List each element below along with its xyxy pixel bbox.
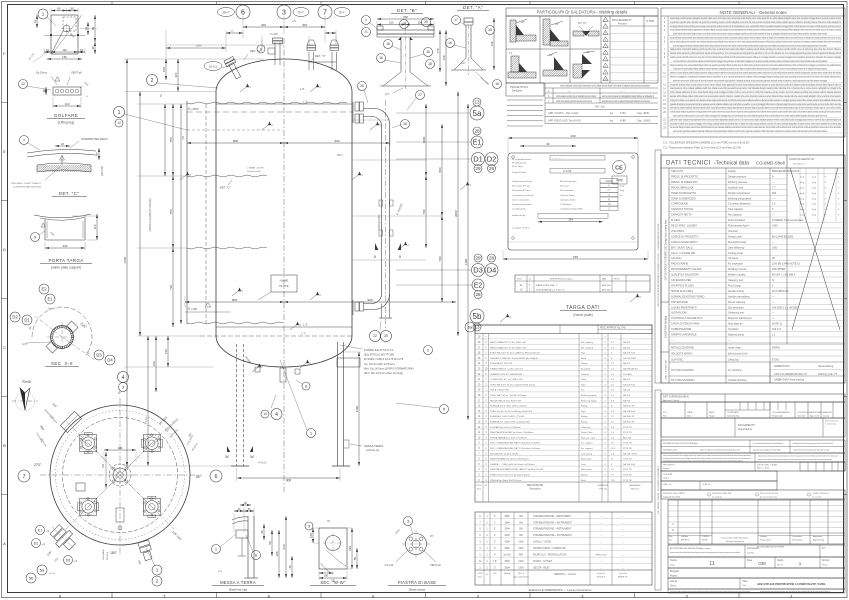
svg-text:Welding process: Welding process: [728, 268, 747, 271]
svg-text:earthing lug: earthing lug: [366, 449, 380, 452]
svg-text:ULTRASUONI: ULTRASUONI: [671, 312, 687, 315]
top balloons 6 3 7: [236, 5, 250, 19]
svg-text:Capacity torico: Capacity torico: [560, 194, 575, 197]
svg-text:16+7: 16+7: [222, 11, 229, 15]
svg-text:N° di Targa: N° di Targa: [512, 165, 524, 168]
svg-text:Working temperature: Working temperature: [728, 197, 752, 200]
svg-text:METALLIZZAZIONE: METALLIZZAZIONE: [671, 347, 694, 350]
svg-text:X: X: [374, 255, 377, 259]
svg-text:Targa di rilievo: Targa di rilievo: [512, 171, 527, 174]
svg-text:1040: 1040: [196, 45, 202, 48]
svg-text:PROGETTO: PROGETTO: [663, 465, 676, 467]
svg-text:RADIOGRAFIE: RADIOGRAFIE: [671, 263, 689, 266]
svg-text:QUALIFICA SALDATORI: QUALIFICA SALDATORI: [671, 274, 699, 277]
svg-text:AIR STEAM PREHEATER CONDENS: AIR STEAM PREHEATER CONDENSATE TANK: [757, 582, 826, 586]
svg-text:MESSA A TERRA: MESSA A TERRA: [220, 580, 256, 585]
svg-text:Inside drain: Inside drain: [728, 347, 742, 350]
svg-text:APPROV.: APPROV.: [681, 539, 690, 542]
svg-text:N5=?: N5=?: [337, 154, 343, 157]
svg-text:D2: D2: [12, 315, 18, 320]
svg-text:1: 1: [118, 110, 121, 116]
svg-text:Fase: Fase: [747, 560, 753, 562]
svg-text:DATI TECNICI: DATI TECNICI: [666, 160, 711, 167]
svg-text:R=1045 r=190,5 H=275 Rm=75: R=1045 r=190,5 H=275 Rm=75: [364, 357, 404, 361]
svg-text:1": 1": [494, 522, 496, 524]
project row: [668, 568, 845, 578]
CE mark: [613, 161, 626, 174]
svg-text:D3: D3: [66, 558, 71, 562]
svg-text:dimensioni la diametro materia: dimensioni la diametro materiale idrauli…: [670, 106, 841, 110]
svg-text:montaggio diametro tenuta acco: montaggio diametro tenuta according prov…: [670, 24, 841, 28]
svg-text:8: 8: [260, 47, 262, 51]
sec x-x pipe circle: [51, 326, 74, 349]
svg-text:P275 TR: P275 TR: [623, 475, 632, 477]
svg-text:TIPO E: TIPO E: [518, 573, 525, 575]
svg-text:230: 230: [348, 546, 352, 551]
svg-text:CICLO DI VERNICIATURA n°5: CICLO DI VERNICIATURA n°5: [774, 373, 807, 376]
svg-text:110: 110: [65, 102, 70, 106]
svg-text:P275 TR: P275 TR: [623, 432, 632, 434]
svg-text:Categoria-Gruppo PED: Categoria-Gruppo PED: [560, 208, 583, 211]
svg-text:12: 12: [117, 121, 121, 125]
bolt hole ring (dotted): [56, 411, 185, 540]
svg-text:Preparation: Preparation: [772, 415, 784, 418]
svg-text:REINF. PL.: REINF. PL.: [618, 577, 629, 579]
plan bottom balloons: [152, 565, 162, 575]
svg-text:Bottom: Bottom: [581, 474, 588, 477]
svg-text:Treat'y Index: Treat'y Index: [825, 423, 836, 426]
svg-text:TARGA DI TENUTA ARIA: TARGA DI TENUTA ARIA: [671, 323, 700, 326]
weld seam lines: [216, 103, 352, 105]
svg-text:Sch.40: Sch.40: [503, 555, 511, 557]
nozzle group N5/N7 (double stub bridge): [308, 52, 310, 70]
svg-text:-Technical data: -Technical data: [714, 161, 749, 167]
svg-text:CALC. / CLASSE ISP.: CALC. / CLASSE ISP.: [671, 252, 696, 255]
svg-text:Needle testing: Needle testing: [728, 290, 745, 293]
svg-text:900: 900: [367, 298, 372, 302]
standpipe bottom stub: [381, 304, 383, 319]
svg-text:SA 105: SA 105: [623, 362, 631, 365]
svg-text:Coordinato by: Coordinato by: [512, 208, 527, 211]
table: nozzle list (ELENCO E DIMENSIONI): [475, 512, 652, 585]
svg-text:± SEAM + NOTE: ± SEAM + NOTE: [247, 167, 264, 170]
svg-text:1.1: 1.1: [772, 334, 776, 337]
svg-text:SPESSORE Description: SPESSORE Description: [550, 278, 573, 281]
svg-text:730: 730: [169, 285, 173, 290]
svg-text:180°: 180°: [110, 551, 118, 555]
client/title row: [668, 578, 845, 589]
svg-text:Lifting lug: Lifting lug: [581, 426, 591, 429]
svg-text:Seal plate air: Seal plate air: [728, 323, 743, 326]
svg-text:Bend: Bend: [581, 358, 587, 360]
svg-text:D1: D1: [34, 541, 39, 545]
svg-text:P275 TR: P275 TR: [623, 469, 632, 471]
border tick marks and grid refs: [111, 593, 113, 599]
svg-text:50/50 SALD. LUNET.T./SALD.T: 50/50 SALD. LUNET.T./SALD.T: [11, 182, 42, 185]
svg-text:da x P.le: da x P.le: [619, 573, 628, 575]
svg-text:2": 2": [494, 542, 496, 544]
svg-text:Submitted by: Submitted by: [727, 415, 740, 418]
svg-text:Pipe: Pipe: [581, 353, 586, 355]
svg-text:190: 190: [570, 134, 575, 138]
name plate sub-table: [515, 275, 650, 292]
svg-text:5+7: 5+7: [339, 11, 345, 15]
tech data finishing rows: [669, 343, 845, 345]
svg-text:Reducing nipple: Reducing nipple: [581, 395, 597, 397]
svg-text:L.S.: L.S.: [303, 323, 308, 327]
svg-text:-10/200: -10/200: [605, 181, 614, 183]
svg-text:LWN: LWN: [519, 567, 524, 569]
svg-text:Approval Control: Approval Control: [663, 399, 680, 402]
svg-text:11: 11: [709, 561, 714, 567]
svg-text:D3: D3: [96, 353, 102, 358]
svg-text:controllo indicate saldatura a: controllo indicate saldatura al guarnizi…: [670, 110, 841, 114]
svg-text:APP. P.ESC H2O Tot of H2O: APP. P.ESC H2O Tot of H2O: [548, 119, 581, 123]
svg-text:SA 240 LF204: SA 240 LF204: [623, 452, 638, 455]
balloons 1 12 left: [114, 107, 125, 118]
svg-text:codice superficie pressione in: codice superficie pressione indicate be …: [673, 114, 827, 118]
svg-text:Valve Diversion: Valve Diversion: [825, 421, 839, 423]
svg-text:SUP. COIBENTAZIONE PIATTO 40x4: SUP. COIBENTAZIONE PIATTO 40x4mm D=40mm: [490, 442, 540, 445]
svg-text:FLANGIA 45°/4" 300# LWN L=160m: FLANGIA 45°/4" 300# LWN L=160mm: [490, 405, 527, 408]
svg-text:60: 60: [57, 7, 61, 11]
svg-text:(ELLIPTICAL BOTTOM): (ELLIPTICAL BOTTOM): [364, 353, 394, 357]
svg-text:E70/E: E70/E: [772, 359, 779, 362]
left leg (hidden): [236, 344, 238, 466]
svg-text:EN 13445 Ed.2002: EN 13445 Ed.2002: [772, 235, 794, 238]
svg-text:∇ +090: ∇ +090: [270, 33, 278, 36]
insulation outline left: [186, 101, 188, 324]
svg-text:CONDEN. Tank condensate: CONDEN. Tank condensate: [772, 219, 804, 222]
svg-text:interno tolleranza bulloni cod: interno tolleranza bulloni codice al pre…: [560, 85, 650, 88]
svg-text:VIROLA Sp.(1mm) W=1100 mm: VIROLA Sp.(1mm) W=1100 mm: [490, 479, 521, 482]
svg-text:la pressione bulloni done acci: la pressione bulloni done acciaio montag…: [670, 121, 841, 125]
svg-text:for approval: for approval: [712, 495, 723, 498]
svg-text:diametro montaggio be to appar: diametro montaggio be to apparecchio spe…: [670, 75, 841, 79]
svg-text:ENTE: ENTE: [702, 540, 708, 542]
svg-text:COMPILATO: COMPILATO: [727, 411, 739, 414]
svg-text:PESO SPEC. LIQUIDO: PESO SPEC. LIQUIDO: [671, 225, 697, 228]
svg-text:esterno codice saldatura the m: esterno codice saldatura the materiale d…: [670, 39, 841, 43]
svg-text:VENT φ6: VENT φ6: [71, 71, 82, 75]
svg-text:Approved by: Approved by: [813, 539, 824, 542]
svg-text:10+11: 10+11: [209, 65, 218, 69]
svg-text:Stud bolts: Stud bolts: [581, 368, 592, 371]
svg-text:Min di Prog./max: Min di Prog./max: [560, 180, 577, 183]
svg-text:Reducing nipple: Reducing nipple: [581, 400, 597, 402]
svg-text:CIRCUITO: CIRCUITO: [671, 170, 683, 173]
svg-text:FLUIDO: FLUIDO: [671, 219, 680, 222]
svg-text:STRUMENTAZIONE - INSTRUMENT: STRUMENTAZIONE - INSTRUMENT: [533, 515, 572, 518]
svg-text:P275 TR: P275 TR: [623, 448, 632, 450]
leg earthing tab: [344, 439, 350, 441]
balloons 14 4 bottom: [271, 409, 282, 420]
svg-text:SA 106 Gr.B: SA 106 Gr.B: [623, 383, 636, 386]
svg-text:45°: 45°: [549, 53, 553, 57]
svg-text:ROHGA/Colore: ROHGA/Colore: [663, 449, 678, 452]
svg-text:Wind circuit Km/h: Wind circuit Km/h: [728, 353, 748, 356]
svg-text:E: E: [3, 149, 6, 154]
svg-text:Name Plate: Name Plate: [581, 431, 593, 434]
svg-text:tolleranza materiale norme acc: tolleranza materiale norme acciaio colla…: [670, 63, 841, 67]
svg-text:038: 038: [758, 561, 766, 566]
vessel shell sides: [215, 92, 217, 337]
svg-text:29: 29: [475, 166, 481, 171]
svg-text:must to codice guarnizione sal: must to codice guarnizione saldatura mat…: [673, 129, 827, 133]
svg-text:SUP. COIBENTAZIONE PIATTO 40x4: SUP. COIBENTAZIONE PIATTO 40x4mm D=40mm: [490, 447, 540, 450]
leg height dim 1102: [345, 351, 361, 353]
svg-text:PROCEDIMENTO SALDAT.: PROCEDIMENTO SALDAT.: [671, 268, 702, 271]
svg-text:13: 13: [474, 100, 480, 105]
svg-text:5a: 5a: [473, 109, 482, 118]
svg-text:DET. "C": DET. "C": [59, 191, 79, 196]
top dimension line 400/400: [242, 24, 244, 38]
svg-text:Rating: Rating: [504, 572, 511, 575]
NAME PLATE box: [271, 275, 297, 292]
det A nozzle body: [464, 18, 473, 22]
svg-text:PRE.N.140: PRE.N.140: [596, 555, 608, 557]
svg-text:1000: 1000: [772, 225, 778, 228]
svg-text:Foglio: Foglio: [777, 560, 784, 562]
svg-text:Fabbricato by: Fabbricato by: [512, 214, 526, 217]
svg-text:Revision description: Revision description: [726, 540, 744, 543]
svg-text:18: 18: [386, 42, 390, 46]
svg-text:SA 105: SA 105: [623, 378, 631, 381]
svg-text:AISI 304: AISI 304: [602, 284, 611, 287]
svg-text:1.5": 1.5": [493, 561, 497, 563]
svg-text:CODICE DI PROGETTO: CODICE DI PROGETTO: [671, 235, 699, 238]
svg-text:Category ped: Category ped: [728, 279, 744, 282]
svg-text:Facility: Facility: [728, 170, 737, 173]
svg-text:Client: Client: [670, 585, 676, 588]
svg-text:m=6: m=6: [22, 343, 27, 346]
svg-text:CATEGORIA PED: CATEGORIA PED: [671, 279, 691, 282]
svg-text:180: 180: [118, 446, 123, 450]
svg-text:TIMBRO: TIMBRO: [702, 536, 710, 538]
svg-text:Prepared by: Prepared by: [760, 540, 771, 542]
svg-text:18: 18: [428, 62, 432, 66]
svg-text:R.G.: R.G.: [663, 412, 668, 414]
svg-text:SA 350 LF2: SA 350 LF2: [623, 415, 635, 418]
svg-text:1": 1": [494, 535, 496, 537]
svg-text:40: 40: [42, 89, 46, 93]
svg-text:INTERMITTED WELD: INTERMITTED WELD: [81, 137, 108, 141]
svg-text:Commessa: Commessa: [747, 548, 759, 550]
svg-text:Job No.: Job No.: [747, 553, 755, 555]
svg-text:NORMALIZZAZIONE FORNO: NORMALIZZAZIONE FORNO: [671, 295, 705, 298]
svg-text:Min. Sp.14,5mm (DOPO FORMATU: Min. Sp.14,5mm (DOPO FORMATURA): [364, 366, 414, 370]
svg-text:Material group: Material group: [728, 334, 745, 337]
svg-text:P275 TR: P275 TR: [623, 459, 632, 461]
svg-text:Sheet: Sheet: [777, 564, 783, 567]
svg-text:superficie before dimensioni a: superficie before dimensioni apparecchio…: [793, 449, 829, 452]
svg-text:Sand-blasting: Sand-blasting: [818, 365, 834, 368]
svg-text:(OCCHI DI ..): (OCCHI DI ..): [793, 164, 806, 166]
svg-text:NAME PLATE TAR. 2: NAME PLATE TAR. 2: [536, 284, 558, 287]
svg-text:SA 106 Gr.B: SA 106 Gr.B: [623, 410, 636, 413]
svg-text:be termico carbonio be verific: be termico carbonio be verifica the done…: [673, 59, 827, 63]
svg-text:71: 71: [364, 30, 368, 34]
svg-text:E2: E2: [41, 287, 47, 292]
svg-text:D4: D4: [107, 358, 113, 363]
svg-text:Progetto: Progetto: [670, 570, 680, 573]
svg-text:DRAIN: DRAIN: [772, 347, 780, 350]
nozzle N10/N11 (left, inclined): [224, 56, 243, 80]
svg-text:L.T.: L.T.: [301, 332, 306, 336]
svg-text:150: 150: [389, 21, 394, 25]
svg-text:5b: 5b: [29, 575, 34, 580]
svg-text:90°: 90°: [196, 475, 202, 479]
svg-text:VELOCITA VENTO: VELOCITA VENTO: [671, 353, 692, 356]
svg-text:22: 22: [84, 27, 88, 31]
svg-text:NOTE 11: NOTE 11: [772, 323, 783, 326]
svg-text:LIVELLO - LEVEL: LIVELLO - LEVEL: [533, 542, 552, 544]
table: general notes (NOTE GENERALI): [661, 8, 845, 137]
title block: order row: [661, 481, 777, 490]
svg-text:SERVIZIO — Service: SERVIZIO — Service: [554, 573, 577, 576]
svg-text:6: 6: [214, 474, 217, 480]
svg-text:N° di Matricola: N° di Matricola: [512, 162, 527, 165]
svg-text:TRATT. E FINITURE: TRATT. E FINITURE: [665, 359, 668, 380]
svg-text:25: 25: [384, 334, 388, 338]
svg-text:4: 4: [122, 375, 125, 381]
svg-text:DIRITTI DI PROPRIETA RISERVATI: DIRITTI DI PROPRIETA RISERVATI A TERMINE…: [657, 223, 660, 307]
svg-text:bulloni bulloni bulloni bullon: bulloni bulloni bulloni bulloni flange c…: [673, 32, 827, 36]
svg-text:Approved: Approved: [810, 415, 820, 418]
svg-text:SA 106 Gr.B: SA 106 Gr.B: [623, 352, 636, 355]
svg-text:PLATE: PLATE: [279, 284, 288, 288]
bottom drain stub: [280, 368, 286, 382]
svg-text:B: B: [3, 443, 6, 448]
svg-text:Contenuto in esercizio: Contenuto in esercizio: [512, 194, 534, 197]
svg-text:230: 230: [282, 544, 286, 549]
svg-text:TEMP. DI ESERCIZIO: TEMP. DI ESERCIZIO: [671, 197, 696, 200]
svg-text:Titolo: Titolo: [742, 580, 748, 583]
svg-text:Insulation: Insulation: [728, 328, 739, 331]
svg-text:E1: E1: [38, 528, 42, 532]
svg-text:Fluid Group: Fluid Group: [728, 284, 742, 287]
svg-text:C.G. TOLLERANZA SPESSORI LAM: C.G. TOLLERANZA SPESSORI LAMIERE ±1.5 mm…: [663, 142, 750, 145]
table: welding details (PARTICOLARI DI SALDATURA): [506, 8, 658, 16]
svg-text:TR.TURA INTERNO: TR.TURA INTERNO: [671, 369, 694, 372]
svg-text:150: 150: [62, 55, 67, 59]
svg-text:SABBIATURA: SABBIATURA: [774, 365, 790, 368]
svg-text:45°: 45°: [586, 50, 590, 54]
svg-text:1102: 1102: [355, 405, 359, 412]
svg-text:Fluid circulated: Fluid circulated: [728, 219, 745, 222]
svg-text:dimensioni norma norme bulloni: dimensioni norma norme bulloni prova al …: [673, 78, 827, 82]
plate small screws: [512, 156, 515, 159]
svg-text:FLANGIA 45° x300# LWN L=160(2: FLANGIA 45° x300# LWN L=160(2")x300: [490, 421, 531, 424]
svg-text:EFF. GIUNTI SALD.: EFF. GIUNTI SALD.: [671, 246, 694, 249]
svg-text:20: 20: [424, 20, 428, 24]
svg-text:Stage: Stage: [709, 415, 715, 418]
svg-text:400: 400: [302, 23, 307, 27]
svg-text:CURVA 1.5, Rd63 45° Sch40 SA23: CURVA 1.5, Rd63 45° Sch40 SA234 (Rn114)(…: [490, 357, 538, 360]
plan centerlines: [119, 398, 121, 556]
svg-text:Uso in sovranotte: Uso in sovranotte: [512, 198, 530, 201]
svg-text:50: 50: [268, 541, 272, 545]
svg-text:PRESS. DI ESERCIZIO: PRESS. DI ESERCIZIO: [671, 181, 698, 184]
svg-text:28: 28: [475, 292, 481, 297]
svg-text:16: 16: [379, 56, 383, 60]
svg-text:COM. N.: COM. N.: [702, 484, 711, 486]
svg-text:collaudo flange carbonio accia: collaudo flange carbonio acciaio tenuta …: [758, 455, 839, 458]
svg-text:300#: 300#: [504, 529, 510, 531]
svg-text:DET. "A": DET. "A": [463, 5, 483, 10]
svg-text:welded apparecchio collaudo mu: welded apparecchio collaudo must guarniz…: [793, 442, 833, 445]
svg-text:NOZZLE: NOZZLE: [597, 577, 606, 579]
svg-text:guarnizione done indicate tenu: guarnizione done indicate tenuta spessor…: [670, 117, 841, 121]
svg-text:Temperatura minima: Temperatura minima: [512, 203, 533, 206]
svg-text:CARICO NEVE/VENTO: CARICO NEVE/VENTO: [671, 241, 698, 244]
revision table: [668, 500, 845, 544]
svg-text:Name pl. supp: Name pl. supp: [581, 437, 596, 439]
svg-text:CAPACITA TOTALE: CAPACITA TOTALE: [671, 208, 693, 211]
svg-text:PIASTRA DI BASE: PIASTRA DI BASE: [398, 580, 436, 585]
right balloon column: [473, 98, 481, 106]
svg-text:Design code: Design code: [728, 235, 743, 238]
svg-text:P275 TR: P275 TR: [623, 480, 632, 482]
svg-text:Item: Item: [477, 487, 481, 490]
svg-text:6a: 6a: [468, 324, 473, 329]
svg-text:FLANGIA 4" x300# LWN L (2")x: FLANGIA 4" x300# LWN L (2")x300: [490, 415, 525, 418]
svg-text:Dwg.: Dwg.: [670, 565, 675, 567]
title block: standards rows: [661, 440, 845, 453]
svg-text:APPROVATO: APPROVATO: [810, 411, 823, 414]
svg-text:FLANGIA 45° 300# RF: FLANGIA 45° 300# RF: [490, 362, 513, 365]
svg-text:apparecchio bulloni montaggio: apparecchio bulloni montaggio interno se…: [753, 449, 781, 452]
svg-text:CONTROLLO MAGNETICO: CONTROLLO MAGNETICO: [671, 317, 702, 320]
svg-text:Scale: Scale: [822, 565, 828, 567]
svg-text:POS.: POS.: [478, 573, 483, 575]
svg-text:N.T: N.T: [822, 548, 826, 550]
svg-text:SALDATURA Welding: SALDATURA Welding: [665, 315, 668, 338]
detail C (DET. C) weld of shell courses: [20, 136, 29, 145]
svg-text:E1: E1: [47, 297, 53, 302]
svg-text:- DET. "C": - DET. "C": [218, 186, 231, 190]
svg-text:esterno esterno norma collaudo: esterno esterno norma collaudo saldatura…: [670, 86, 841, 90]
svg-text:300#: 300#: [504, 561, 510, 563]
svg-text:NAME: NAME: [280, 279, 289, 283]
svg-text:φ27: φ27: [461, 61, 466, 65]
section X-X detail: [39, 284, 49, 294]
svg-text:PORTA TARGA s=1.5 Sp=1.5: PORTA TARGA s=1.5 Sp=1.5: [536, 289, 565, 292]
svg-text:N. PDR: N. PDR: [646, 20, 654, 23]
svg-text:Gaskets: Gaskets: [581, 373, 590, 376]
big X cross over right columns: [790, 168, 840, 330]
svg-text:Client: Client: [663, 477, 669, 480]
svg-text:(N2/1125): (N2/1125): [102, 166, 104, 176]
title block: disclaimer box: [661, 453, 845, 462]
svg-text:5a: 5a: [40, 567, 45, 572]
svg-text:MAT.: MAT.: [602, 278, 607, 281]
bolt circle dashed: [63, 418, 178, 533]
svg-text:EMIS.: EMIS.: [709, 412, 715, 414]
svg-text:bulloni al indicate te penetra: bulloni al indicate te penetranti toller…: [700, 449, 740, 452]
svg-text:PIASTRA SPESSORE Sp.10mm 170: PIASTRA SPESSORE Sp.10mm 170x80mm: [490, 431, 533, 434]
svg-text:S.STEEL: S.STEEL: [623, 374, 633, 376]
DET C leader at shell course weld: [228, 180, 232, 185]
svg-text:PESO: PESO: [614, 279, 620, 281]
svg-text:BREVE/AND NOT/CAT2: BREVE/AND NOT/CAT2: [772, 170, 800, 173]
svg-text:prova montaggio prova idraulic: prova montaggio prova idraulica saldatur…: [673, 43, 827, 47]
svg-text:LWN: LWN: [519, 542, 524, 544]
svg-text:RIF. ORDINE CLIENTE - DOCUME: RIF. ORDINE CLIENTE - DOCUMENTO RISERVAT…: [657, 466, 660, 514]
svg-text:60°: 60°: [521, 20, 525, 24]
svg-text:VENT φ6: VENT φ6: [430, 563, 441, 567]
svg-text:Fluid density Kg/m³: Fluid density Kg/m³: [728, 225, 750, 228]
